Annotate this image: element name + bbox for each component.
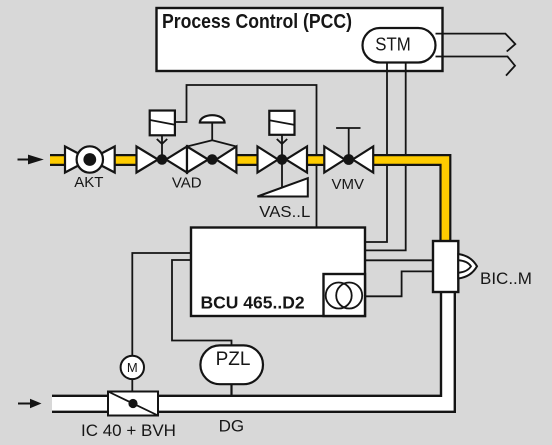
burner BIC..M <box>433 241 458 292</box>
wire BCU to PZL <box>172 260 232 347</box>
flame symbol <box>458 254 477 279</box>
air inlet arrow <box>18 399 42 408</box>
manual T handle VMV <box>336 128 360 160</box>
signal line out top with chevron <box>436 34 516 52</box>
burner control unit BCU box <box>191 228 365 317</box>
svg-text:BIC..M: BIC..M <box>480 269 532 288</box>
butterfly valve IC 40 + BVH <box>108 392 158 416</box>
wire STM to BCU B <box>365 45 406 250</box>
wire solenoid net VAD/VAS to BCU <box>175 85 317 228</box>
pipe break under VMV <box>324 152 373 168</box>
svg-text:IC 40 + BVH: IC 40 + BVH <box>81 421 176 440</box>
svg-text:AKT: AKT <box>74 174 103 191</box>
valve VAD double block <box>137 147 237 173</box>
actuator stem arrow VAS <box>277 135 287 160</box>
valve VMV <box>324 147 373 173</box>
solenoid coil of VAD valve 1 <box>150 111 175 136</box>
wire BCU to burner <box>365 259 434 261</box>
svg-text:Process Control (PCC): Process Control (PCC) <box>162 11 352 33</box>
svg-text:VAS..L: VAS..L <box>259 204 310 221</box>
pipe break under VAD <box>137 152 237 168</box>
wire BCU to motor M <box>132 253 191 356</box>
svg-text:STM: STM <box>375 33 411 54</box>
valve AKT <box>65 146 115 172</box>
diaphragm dome actuator VAD2 <box>187 115 236 146</box>
pipe break under VAS <box>258 152 308 168</box>
gas inlet arrow <box>18 155 44 165</box>
solenoid coil of VAS valve <box>269 111 294 135</box>
valve VAS..L <box>258 147 308 173</box>
svg-text:M: M <box>127 360 138 375</box>
svg-text:DG: DG <box>219 417 245 436</box>
svg-text:PZL: PZL <box>216 349 251 370</box>
signal line out bottom with chevron <box>436 57 516 76</box>
svg-text:VAD: VAD <box>172 174 202 191</box>
motor M <box>121 356 144 392</box>
process control box PCC <box>157 8 443 71</box>
wire STM to BCU A <box>365 45 387 242</box>
svg-text:VMV: VMV <box>332 176 365 193</box>
gas pipe yellow <box>50 160 445 246</box>
pressure switch PZL <box>200 345 263 396</box>
actuator stem arrow VAD1 <box>157 135 167 159</box>
STM module <box>363 28 436 63</box>
svg-text:BCU 465..D2: BCU 465..D2 <box>201 293 305 313</box>
air pipe bottom <box>52 292 456 413</box>
ignition transformer box <box>324 274 366 316</box>
relief ramp symbol VAS <box>257 160 307 197</box>
wire transformer to burner <box>365 271 434 296</box>
pipe break under AKT <box>65 152 115 168</box>
